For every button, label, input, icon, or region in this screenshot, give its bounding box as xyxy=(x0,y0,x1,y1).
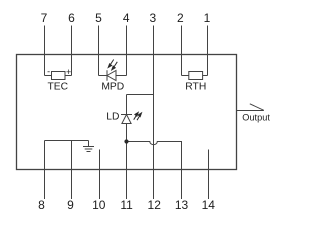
svg-text:RTH: RTH xyxy=(185,81,206,92)
svg-text:3: 3 xyxy=(149,11,156,25)
svg-text:10: 10 xyxy=(92,198,106,212)
svg-text:1: 1 xyxy=(204,11,211,25)
svg-text:+: + xyxy=(66,67,71,77)
svg-text:Output: Output xyxy=(242,112,270,122)
svg-text:MPD: MPD xyxy=(101,81,124,92)
svg-text:5: 5 xyxy=(95,11,102,25)
svg-text:8: 8 xyxy=(38,198,45,212)
svg-text:-: - xyxy=(47,66,50,76)
svg-text:2: 2 xyxy=(177,11,184,25)
svg-text:7: 7 xyxy=(41,11,48,25)
svg-text:12: 12 xyxy=(148,198,162,212)
svg-text:14: 14 xyxy=(202,198,216,212)
svg-text:4: 4 xyxy=(123,11,130,25)
svg-text:LD: LD xyxy=(106,112,119,123)
svg-text:TEC: TEC xyxy=(47,81,68,92)
svg-text:6: 6 xyxy=(68,11,75,25)
svg-text:9: 9 xyxy=(67,198,74,212)
svg-text:13: 13 xyxy=(175,198,189,212)
svg-text:11: 11 xyxy=(120,198,133,212)
